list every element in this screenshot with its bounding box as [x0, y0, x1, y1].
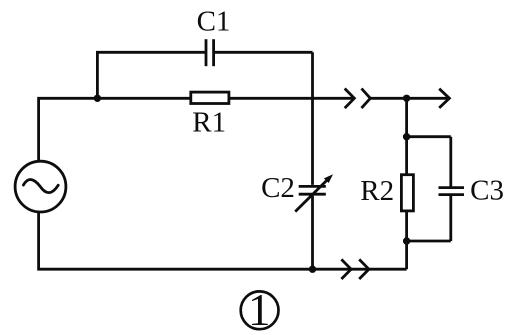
svg-text:C2: C2 [261, 172, 295, 204]
svg-text:C1: C1 [197, 5, 231, 37]
svg-text:1: 1 [248, 285, 271, 335]
svg-text:R1: R1 [192, 106, 226, 138]
svg-text:C3: C3 [470, 174, 504, 206]
svg-text:R2: R2 [360, 175, 394, 207]
